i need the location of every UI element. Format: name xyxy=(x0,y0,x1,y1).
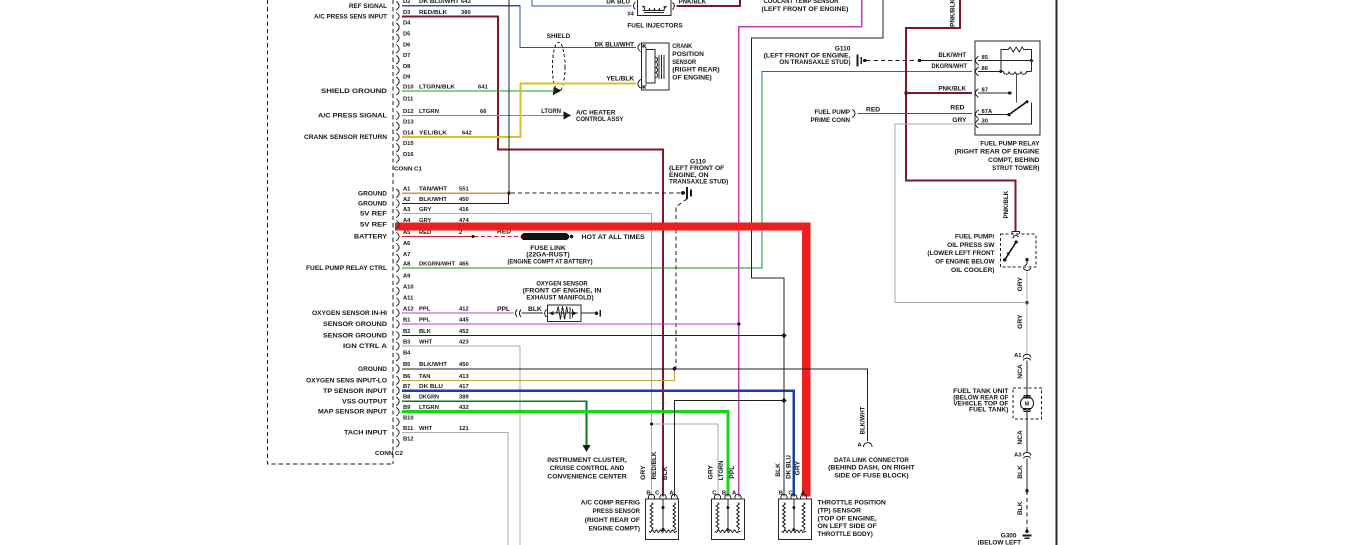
switch arm xyxy=(1005,242,1016,260)
injector coil xyxy=(642,6,666,11)
svg-text:BLK/WHT: BLK/WHT xyxy=(419,197,447,203)
svg-text:A6: A6 xyxy=(403,241,411,247)
svg-text:(22GA-RUST): (22GA-RUST) xyxy=(526,252,569,259)
wire D3 RED/BLK 380 to A/C refrigerant pressure sensor pin C xyxy=(402,17,663,497)
svg-text:D2: D2 xyxy=(403,0,410,5)
wire B11 WHT 121 tach (to bottom edge) xyxy=(402,433,508,545)
fuel pump prime connector xyxy=(852,109,855,118)
svg-text:INSTRUMENT CLUSTER,: INSTRUMENT CLUSTER, xyxy=(547,457,627,464)
relay pin 30 bracket xyxy=(976,119,979,128)
PCM pin D4 xyxy=(396,23,399,32)
wire B5 BLK/WHT 450 ground to G110 and DLC xyxy=(402,369,868,441)
oxygen sensor pin bracket xyxy=(545,309,547,317)
svg-text:STRUT TOWER): STRUT TOWER) xyxy=(992,165,1039,172)
svg-text:D14: D14 xyxy=(403,130,414,136)
dashed drop from G110 to B5 ground junction xyxy=(676,199,687,368)
PCM pin D3 xyxy=(396,12,399,21)
svg-text:RED/BLK: RED/BLK xyxy=(419,10,448,16)
svg-text:66: 66 xyxy=(480,109,487,115)
svg-text:PRIME CONN: PRIME CONN xyxy=(811,117,851,124)
svg-text:A10: A10 xyxy=(403,284,414,290)
crank sensor pin bracket YEL/BLK xyxy=(638,79,641,88)
PCM pin A4 bracket over highlight xyxy=(396,220,399,229)
shield (dashed oval) xyxy=(552,42,565,92)
relay pin 87A internal lead xyxy=(978,113,1009,115)
wire B8 DKGRN 389 VSS output to instrument cluster xyxy=(402,401,587,445)
svg-text:CONTROL ASSY: CONTROL ASSY xyxy=(576,116,624,123)
svg-text:D8: D8 xyxy=(403,64,411,70)
svg-text:GRY: GRY xyxy=(419,207,431,213)
svg-text:SHIELD GROUND: SHIELD GROUND xyxy=(321,88,387,95)
svg-text:(LOWER LEFT FRONT: (LOWER LEFT FRONT xyxy=(927,250,995,257)
svg-text:(LEFT FRONT OF ENGINE): (LEFT FRONT OF ENGINE) xyxy=(762,6,849,13)
wire D14 YEL/BLK 642 to crank position sensor xyxy=(402,84,636,137)
relay pin 86 internal lead xyxy=(978,70,1003,72)
wire GRY relay pin 30 to fuel pump xyxy=(895,124,1025,303)
wire B5 crossing over highlight xyxy=(798,368,868,370)
svg-text:B4: B4 xyxy=(403,350,411,356)
injector PNK/BLK wire to top edge xyxy=(677,0,740,6)
svg-text:ENGINE COMPT): ENGINE COMPT) xyxy=(589,526,640,533)
wire A12 PPL 412 oxygen sensor signal xyxy=(402,312,514,314)
PCM pin B12 xyxy=(396,439,399,448)
svg-text:D4: D4 xyxy=(403,21,411,27)
PCM pin B10 xyxy=(396,418,399,427)
svg-text:GROUND: GROUND xyxy=(358,201,387,208)
PCM pin B7 xyxy=(396,386,399,395)
branch to A/C pressure sensor pin A xyxy=(674,401,784,497)
node at fusible link end xyxy=(570,235,574,239)
svg-text:DKGRN/WHT: DKGRN/WHT xyxy=(931,63,967,70)
PCM pin B11 xyxy=(396,428,399,437)
svg-text:412: 412 xyxy=(459,306,469,312)
svg-text:450: 450 xyxy=(459,197,469,203)
svg-text:PNK/BLK: PNK/BLK xyxy=(950,0,957,27)
svg-text:D6: D6 xyxy=(403,42,411,48)
ground G300 xyxy=(1025,530,1029,534)
svg-text:B6: B6 xyxy=(403,374,411,380)
relay switch arm xyxy=(1009,101,1028,114)
relay pin 30 internal lead xyxy=(978,102,1031,124)
svg-text:B7: B7 xyxy=(403,384,410,390)
svg-text:A/C PRESS SIGNAL: A/C PRESS SIGNAL xyxy=(318,113,387,120)
PCM pin A9 xyxy=(396,276,399,285)
wire D12 LTGRN 66 to A/C heater control assy xyxy=(402,115,564,117)
svg-text:RED/BLK: RED/BLK xyxy=(651,452,658,480)
svg-text:NCA: NCA xyxy=(1017,430,1024,445)
PNK/BLK feed from top edge xyxy=(906,0,1016,232)
svg-text:BLK: BLK xyxy=(419,329,432,335)
PCM pin A7 xyxy=(396,254,399,263)
svg-text:COMPT, BEHIND: COMPT, BEHIND xyxy=(988,157,1040,164)
relay pin 87A bracket xyxy=(976,110,979,119)
svg-text:(TP) SENSOR: (TP) SENSOR xyxy=(818,508,862,515)
svg-text:CONN C1: CONN C1 xyxy=(394,166,423,172)
svg-text:452: 452 xyxy=(459,329,469,335)
PCM pin D6 xyxy=(396,45,399,54)
page border (right) xyxy=(1056,0,1058,545)
wire B1 PPL 445 sensor ground xyxy=(402,323,739,325)
svg-text:D15: D15 xyxy=(403,141,414,147)
svg-text:GRY: GRY xyxy=(708,465,715,480)
svg-text:LTGRN/BLK: LTGRN/BLK xyxy=(419,84,456,90)
wire NCA below fuel tank unit xyxy=(1026,419,1028,452)
svg-text:A2: A2 xyxy=(403,197,410,203)
wire D2 DK BLU/WHT 643 to crank position sensor xyxy=(402,6,636,48)
svg-text:D7: D7 xyxy=(403,53,410,59)
oxygen sensor case ground pigtail xyxy=(581,312,595,314)
svg-text:(ENGINE COMPT AT BATTERY): (ENGINE COMPT AT BATTERY) xyxy=(508,259,593,266)
inline connector A1 xyxy=(1023,354,1031,357)
svg-text:B11: B11 xyxy=(403,426,414,432)
svg-text:BLK/WHT: BLK/WHT xyxy=(860,406,867,434)
svg-text:(RIGHT REAR): (RIGHT REAR) xyxy=(672,67,719,74)
svg-text:D3: D3 xyxy=(403,10,411,16)
junction node at A1/A2 ground xyxy=(507,192,510,195)
PCM pin D13 xyxy=(396,122,399,131)
PPL riser from coolant temp sensor (top) through B1 to MAP sensor pin A xyxy=(739,0,862,497)
PCM pin B1 xyxy=(396,320,399,329)
svg-text:OXYGEN SENSOR IN-HI: OXYGEN SENSOR IN-HI xyxy=(312,310,387,317)
oxygen sensor element box xyxy=(548,305,581,321)
switch mating half below box xyxy=(1023,268,1030,270)
svg-text:DKGRN/WHT: DKGRN/WHT xyxy=(419,261,455,267)
svg-text:FUEL PUMP: FUEL PUMP xyxy=(814,109,850,116)
svg-text:FUEL TANK): FUEL TANK) xyxy=(969,407,1009,414)
dashed ground lead to junction xyxy=(867,60,918,62)
fuel pump / oil press switch dashed box xyxy=(1001,234,1036,267)
wire A1 TAN/WHT 551 ground xyxy=(402,192,509,194)
fuel injector feed wire DK BLU (from top edge) xyxy=(532,0,632,6)
svg-text:LTGRN: LTGRN xyxy=(419,109,439,115)
wire B9 LTGRN 432 MAP sensor signal xyxy=(402,412,728,497)
PCM pin B9 xyxy=(396,407,399,416)
svg-text:BLK: BLK xyxy=(528,306,542,313)
junction node PNK/BLK to relay pin 87 xyxy=(904,91,907,94)
svg-text:WHT: WHT xyxy=(419,426,433,432)
svg-text:PPL: PPL xyxy=(419,317,431,323)
PCM pin A3 xyxy=(396,209,399,218)
svg-text:CRUISE CONTROL AND: CRUISE CONTROL AND xyxy=(550,465,625,472)
svg-text:551: 551 xyxy=(459,187,469,193)
svg-text:(BELOW LEFT: (BELOW LEFT xyxy=(978,540,1022,545)
svg-text:A1: A1 xyxy=(1014,353,1022,359)
PCM pin D7 xyxy=(396,55,399,64)
PCM pin A5 xyxy=(396,232,399,241)
junction node battery splice xyxy=(471,235,474,238)
svg-text:A5: A5 xyxy=(403,230,411,236)
PCM pin A1 xyxy=(396,189,399,198)
svg-text:DK BLU/WHT: DK BLU/WHT xyxy=(595,41,635,48)
svg-text:SIDE OF FUSE BLOCK): SIDE OF FUSE BLOCK) xyxy=(834,473,908,480)
PCM pin A12 xyxy=(396,309,399,318)
oxygen sensor internal symbol xyxy=(549,312,579,314)
svg-text:D9: D9 xyxy=(403,75,411,81)
svg-text:413: 413 xyxy=(459,374,469,380)
injector left pin bracket xyxy=(633,2,635,9)
relay pin 86 bracket xyxy=(976,67,979,76)
svg-text:B: B xyxy=(646,490,650,496)
PCM pin B3 xyxy=(396,342,399,351)
svg-text:PPL: PPL xyxy=(497,306,510,313)
wire B6 TAN 413 oxygen sensor low xyxy=(402,370,675,380)
svg-text:PRESS SENSOR: PRESS SENSOR xyxy=(593,508,641,515)
junction node BLK xyxy=(1025,489,1028,492)
svg-text:GROUND: GROUND xyxy=(358,190,387,197)
svg-text:DK BLU: DK BLU xyxy=(419,384,443,390)
svg-text:D13: D13 xyxy=(403,120,414,126)
inline connector A3 xyxy=(1023,453,1031,456)
svg-text:B: B xyxy=(722,490,726,496)
svg-text:TAN: TAN xyxy=(419,374,430,380)
highlighted wire A4 GRY 474 (thick red) xyxy=(395,227,806,497)
svg-text:CONN C2: CONN C2 xyxy=(375,451,403,457)
wire A5 RED 2 battery feed xyxy=(402,236,473,238)
svg-text:465: 465 xyxy=(459,261,469,267)
wire PNK/BLK to relay pin 87 xyxy=(906,92,972,94)
svg-text:DATA LINK CONNECTOR: DATA LINK CONNECTOR xyxy=(834,457,909,464)
shield drain arrowhead xyxy=(553,87,562,95)
svg-text:450: 450 xyxy=(459,362,469,368)
fuel pump relay box xyxy=(975,41,1040,135)
throttle position sensor xyxy=(778,499,811,540)
dashed BLK lead to G300 xyxy=(1026,491,1028,530)
svg-text:OIL PRESS SW: OIL PRESS SW xyxy=(947,242,995,249)
svg-text:BATTERY: BATTERY xyxy=(354,234,388,241)
wire B2 BLK 452 sensor ground xyxy=(402,335,784,337)
svg-text:A3: A3 xyxy=(1014,452,1022,458)
relay pin 85 bracket xyxy=(976,56,979,65)
svg-text:2: 2 xyxy=(459,230,462,236)
svg-text:ON TRANSAXLE STUD): ON TRANSAXLE STUD) xyxy=(779,59,850,66)
svg-text:TP SENSOR INPUT: TP SENSOR INPUT xyxy=(323,388,388,395)
PCM pin B4 xyxy=(396,353,399,362)
black ground wire from top edge to TP and A/C sensors xyxy=(751,0,883,497)
svg-text:PNK/BLK: PNK/BLK xyxy=(938,86,966,93)
svg-text:SENSOR GROUND: SENSOR GROUND xyxy=(323,321,387,328)
svg-text:DK BLU/WHT: DK BLU/WHT xyxy=(419,0,459,5)
svg-text:MAP SENSOR INPUT: MAP SENSOR INPUT xyxy=(318,409,388,416)
junction node GRY branch xyxy=(650,423,653,426)
svg-text:FUEL PUMP RELAY CTRL: FUEL PUMP RELAY CTRL xyxy=(306,265,387,272)
relay pin 87 internal lead xyxy=(978,92,1010,94)
svg-text:OXYGEN SENS INPUT-LO: OXYGEN SENS INPUT-LO xyxy=(306,378,387,385)
dashed battery lead xyxy=(475,236,522,238)
svg-text:423: 423 xyxy=(459,339,469,345)
svg-text:(TOP OF ENGINE,: (TOP OF ENGINE, xyxy=(818,515,877,522)
svg-text:GRY: GRY xyxy=(952,117,967,124)
svg-text:G300: G300 xyxy=(1001,533,1017,540)
svg-text:B10: B10 xyxy=(403,415,414,421)
svg-text:YEL/BLK: YEL/BLK xyxy=(419,130,448,136)
PCM pin D14 xyxy=(396,133,399,142)
svg-text:LTGRN: LTGRN xyxy=(718,460,725,480)
PCM pin A8 xyxy=(396,264,399,273)
PCM pin B8 xyxy=(396,397,399,406)
PCM pin A10 xyxy=(396,287,399,296)
svg-text:THROTTLE POSITION: THROTTLE POSITION xyxy=(818,500,886,507)
svg-text:CRANK: CRANK xyxy=(672,43,692,50)
svg-text:D16: D16 xyxy=(403,152,414,158)
svg-text:SHIELD: SHIELD xyxy=(547,33,571,40)
svg-text:B5: B5 xyxy=(403,362,411,368)
svg-text:IGN CTRL A: IGN CTRL A xyxy=(343,343,387,350)
switch output contact xyxy=(1025,258,1028,261)
svg-text:D10: D10 xyxy=(403,84,414,90)
wire A2 BLK/WHT 450 ground xyxy=(402,194,509,204)
switch top terminal xyxy=(1012,232,1020,234)
svg-text:642: 642 xyxy=(462,130,472,136)
svg-text:380: 380 xyxy=(461,10,471,16)
relay actuator link xyxy=(1015,74,1017,102)
svg-text:FUEL PUMP RELAY: FUEL PUMP RELAY xyxy=(980,140,1040,147)
svg-text:B3: B3 xyxy=(403,339,411,345)
svg-text:GRY: GRY xyxy=(1017,314,1024,329)
svg-text:BLK/WHT: BLK/WHT xyxy=(419,362,447,368)
svg-text:GRY: GRY xyxy=(1017,277,1024,292)
arrowhead to A/C heater control assy xyxy=(564,111,572,119)
svg-text:A3: A3 xyxy=(403,207,411,213)
ground G110 (relay side symbol) xyxy=(857,54,859,66)
svg-text:(FRONT OF ENGINE, IN: (FRONT OF ENGINE, IN xyxy=(523,288,602,295)
svg-text:DK BLU: DK BLU xyxy=(606,0,630,5)
svg-text:POSITION: POSITION xyxy=(672,51,704,58)
junction node PPL xyxy=(737,322,740,325)
crank sensor entry arrows xyxy=(643,45,647,48)
svg-text:YEL/BLK: YEL/BLK xyxy=(606,76,634,83)
svg-text:PNK/BLK: PNK/BLK xyxy=(1003,191,1010,219)
wire NCA to fuel tank unit xyxy=(1026,360,1028,388)
svg-text:TAN/WHT: TAN/WHT xyxy=(419,187,447,193)
svg-text:BLK: BLK xyxy=(1017,501,1024,515)
relay coil xyxy=(1003,71,1031,74)
svg-text:VSS OUTPUT: VSS OUTPUT xyxy=(342,398,388,405)
svg-text:OF ENGINE): OF ENGINE) xyxy=(672,74,712,81)
svg-text:RED: RED xyxy=(866,106,880,113)
PCM pin A4 xyxy=(396,220,399,229)
svg-text:RED: RED xyxy=(419,230,431,236)
svg-text:ON LEFT SIDE OF: ON LEFT SIDE OF xyxy=(818,523,877,530)
PCM pin D12 xyxy=(396,111,399,120)
wire D10 LTGRN/BLK 641 shield ground xyxy=(402,90,555,92)
junction node B2/sensor ground xyxy=(781,333,786,338)
svg-text:A9: A9 xyxy=(403,273,411,279)
inline connector (( xyxy=(515,309,517,317)
svg-text:416: 416 xyxy=(459,207,469,213)
wire A3 GRY 416 5V REF to pressure sensors xyxy=(402,214,718,497)
black wire from top edge to ground junction xyxy=(508,0,510,193)
PCM pin A11 xyxy=(396,298,399,307)
svg-text:SENSOR: SENSOR xyxy=(672,59,696,66)
svg-text:GROUND: GROUND xyxy=(358,366,387,373)
PCM pin D16 xyxy=(396,154,399,163)
data link connector pin A bracket xyxy=(863,443,872,447)
crank sensor pin bracket DK BLU/WHT xyxy=(638,43,641,52)
svg-text:PPL: PPL xyxy=(729,466,736,479)
svg-text:D12: D12 xyxy=(403,109,414,115)
svg-text:5V REF: 5V REF xyxy=(360,211,387,218)
junction node GRY xyxy=(1025,301,1028,304)
svg-text:B2: B2 xyxy=(403,329,410,335)
PCM pin A2 xyxy=(396,199,399,208)
svg-text:BLK: BLK xyxy=(662,466,669,480)
PCM pin D15 xyxy=(396,144,399,153)
junction node sensor ground branch xyxy=(781,398,786,403)
svg-text:B8: B8 xyxy=(403,395,411,401)
svg-text:(RIGHT REAR OF ENGINE: (RIGHT REAR OF ENGINE xyxy=(955,149,1041,156)
PCM pin B6 xyxy=(396,376,399,385)
wire B3 WHT 423 ign ctrl (to bottom edge) xyxy=(402,346,520,545)
svg-text:B: B xyxy=(779,490,783,496)
dashed lead to G110 xyxy=(511,192,681,194)
svg-text:GRY: GRY xyxy=(640,465,647,480)
switch upper contact xyxy=(1013,235,1018,238)
svg-text:OF ENGINE BELOW: OF ENGINE BELOW xyxy=(935,259,995,266)
svg-text:121: 121 xyxy=(459,426,469,432)
svg-text:A11: A11 xyxy=(403,295,414,301)
svg-text:REF SIGNAL: REF SIGNAL xyxy=(349,3,387,10)
svg-text:A8: A8 xyxy=(403,261,411,267)
junction node B5/B6/G110 xyxy=(672,366,677,371)
svg-text:THROTTLE BODY): THROTTLE BODY) xyxy=(818,531,873,538)
fuel tank unit dashed box xyxy=(1013,388,1042,419)
PCM pin D2 xyxy=(396,1,399,10)
svg-text:(RIGHT REAR OF: (RIGHT REAR OF xyxy=(585,517,640,524)
svg-text:A1: A1 xyxy=(403,187,411,193)
PCM pin D5 xyxy=(396,34,399,43)
svg-text:D5: D5 xyxy=(403,32,411,38)
svg-text:TACH INPUT: TACH INPUT xyxy=(344,430,388,437)
svg-text:445: 445 xyxy=(459,317,469,323)
svg-text:A12: A12 xyxy=(403,306,414,312)
BLK pigtail to oxygen sensor xyxy=(522,312,543,314)
svg-text:COOLANT TEMP SENSOR: COOLANT TEMP SENSOR xyxy=(763,0,838,5)
svg-text:B12: B12 xyxy=(403,436,414,442)
wire B7 DK BLU 417 TP sensor signal xyxy=(402,391,794,497)
svg-text:SENSOR GROUND: SENSOR GROUND xyxy=(323,333,387,340)
svg-text:NCA: NCA xyxy=(1017,364,1024,379)
svg-text:389: 389 xyxy=(459,395,469,401)
svg-text:DK BLU: DK BLU xyxy=(785,455,792,479)
svg-text:WHT: WHT xyxy=(419,339,433,345)
sensor pin bump A over highlight xyxy=(801,494,807,499)
svg-text:BLK: BLK xyxy=(1017,465,1024,479)
svg-text:D11: D11 xyxy=(403,96,414,102)
svg-text:PNK/BLK: PNK/BLK xyxy=(679,0,707,5)
svg-text:FUEL PUMP/: FUEL PUMP/ xyxy=(955,234,995,241)
svg-text:BLK/WHT: BLK/WHT xyxy=(938,52,966,59)
svg-text:PPL: PPL xyxy=(419,306,431,312)
wire A8 DKGRN/WHT 465 fuel pump relay control to relay pin 86 xyxy=(402,71,972,268)
crank position sensor box xyxy=(641,43,669,90)
svg-text:EXHAUST MANIFOLD): EXHAUST MANIFOLD) xyxy=(526,295,593,302)
svg-text:CRANK SENSOR RETURN: CRANK SENSOR RETURN xyxy=(304,134,387,141)
svg-text:RED: RED xyxy=(950,105,964,112)
svg-text:5V REF: 5V REF xyxy=(360,222,387,229)
svg-text:A7: A7 xyxy=(403,252,410,258)
wire RED prime to relay pin 87A xyxy=(858,113,973,115)
MAP sensor (center, unlabeled) xyxy=(712,499,745,540)
injector right pin bracket xyxy=(673,2,675,9)
svg-text:643: 643 xyxy=(461,0,471,5)
svg-text:LTGRN: LTGRN xyxy=(541,108,561,115)
PCM pin A6 xyxy=(396,243,399,252)
svg-text:M: M xyxy=(1025,402,1030,408)
fuel pump motor xyxy=(1026,388,1028,397)
relay pin 87 bracket xyxy=(976,89,979,98)
PCM pin D9 xyxy=(396,77,399,86)
PCM pin D10 xyxy=(396,87,399,96)
